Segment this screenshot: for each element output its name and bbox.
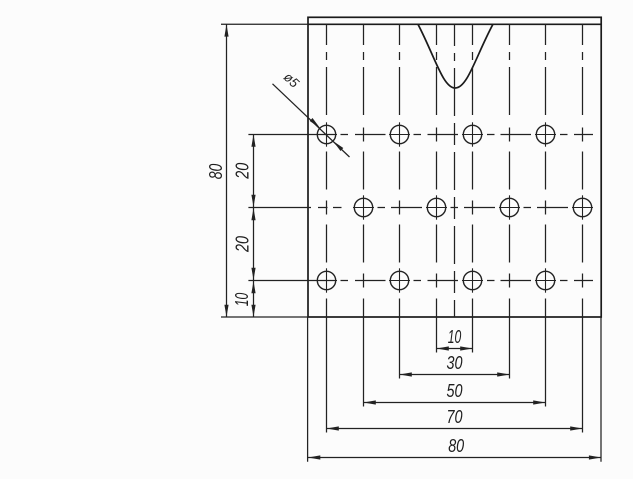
center line column 6 [509, 24, 511, 378]
svg-text:ø5: ø5 [281, 69, 303, 91]
bottom edge extension left [221, 316, 308, 318]
center line column 7 [545, 24, 547, 406]
svg-text:20: 20 [232, 236, 252, 253]
center line column 4 [436, 24, 438, 352]
dimension 80 left: line [226, 24, 228, 317]
center line column 3 [399, 24, 401, 378]
hole 3 (phi5) [463, 125, 481, 143]
svg-text:50: 50 [447, 381, 463, 401]
dimension 70 bottom: line [327, 428, 583, 430]
fold line [308, 23, 601, 25]
hole 9 (phi5) [317, 271, 335, 289]
svg-text:70: 70 [447, 407, 463, 427]
hole 5 (phi5) [354, 198, 372, 216]
svg-text:20: 20 [232, 163, 252, 180]
hole 2 (phi5) [390, 125, 408, 143]
hole 10 (phi5) [390, 271, 408, 289]
hole 7 (phi5) [500, 198, 518, 216]
dimension 10 bottom: line [437, 348, 473, 350]
hole 4 (phi5) [536, 125, 554, 143]
hole 8 (phi5) [573, 198, 591, 216]
dimension 50 bottom: line [364, 402, 546, 404]
hole 12 (phi5) [536, 271, 554, 289]
plate outline [308, 17, 601, 317]
svg-text:80: 80 [206, 164, 226, 180]
svg-text:10: 10 [232, 293, 252, 307]
plate edge extension right [600, 317, 602, 462]
hole 11 (phi5) [463, 271, 481, 289]
hole 1 (phi5) [317, 125, 335, 143]
leader phi5 [273, 84, 350, 157]
plate edge extension left [307, 317, 309, 462]
hole 6 (phi5) [427, 198, 445, 216]
svg-text:80: 80 [448, 436, 464, 456]
center line column 1 [326, 24, 328, 432]
row 3 center/extension line [248, 280, 593, 282]
dimension line left inner (20/20/10) [253, 135, 255, 318]
row 1 center/extension line [248, 134, 593, 136]
svg-text:30: 30 [447, 353, 463, 373]
dimension 80 left: extension top [221, 23, 308, 25]
crossing dashes at non-hole intersections [327, 128, 583, 288]
dimension 80 bottom: line [308, 457, 601, 459]
center line column 2 [363, 24, 365, 406]
notch center line [454, 24, 456, 317]
svg-text:10: 10 [448, 327, 462, 347]
V notch [418, 24, 493, 88]
center line column 5 [472, 24, 474, 352]
row 2 center/extension line [248, 207, 568, 209]
center line column 8 [582, 24, 584, 432]
dimension 30 bottom: line [400, 374, 510, 376]
